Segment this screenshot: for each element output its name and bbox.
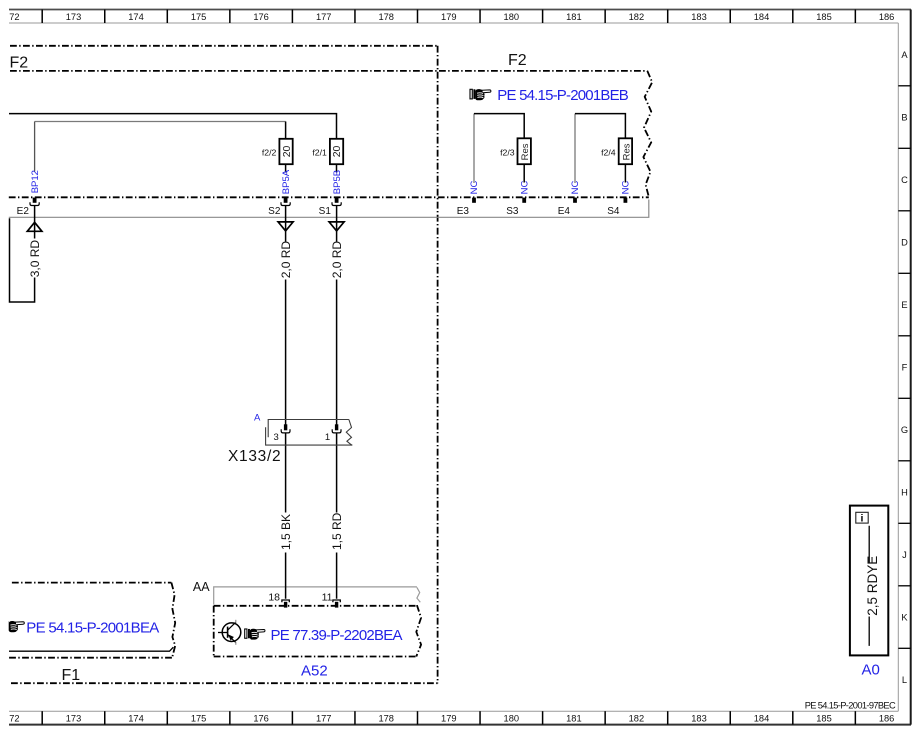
svg-text:11: 11 [322,592,333,604]
component box F2 right: zigzag continuation edge [643,71,652,197]
component box A52: bottom border [214,656,417,658]
terminal S2 [281,198,290,206]
svg-text:Res: Res [520,143,531,160]
svg-text:2,0 RD: 2,0 RD [330,241,344,279]
right ruler column [898,10,910,725]
svg-text:H: H [901,487,908,497]
connector pin 3 [281,424,290,433]
component box F1: zigzag continuation edge [171,583,175,657]
svg-text:X133/2: X133/2 [228,448,281,465]
component box F1: top border [12,582,172,584]
svg-text:2,0 RD: 2,0 RD [279,241,293,279]
svg-text:L: L [902,675,907,685]
svg-text:BP5B: BP5B [332,170,343,194]
svg-text:PE 54.15-P-2001-97BEC: PE 54.15-P-2001-97BEC [805,700,896,710]
svg-text:F1: F1 [62,667,81,684]
svg-text:179: 179 [441,12,457,22]
svg-text:S4: S4 [607,206,620,217]
svg-text:181: 181 [566,12,582,22]
svg-text:173: 173 [66,12,82,22]
svg-text:BP12: BP12 [30,170,41,193]
svg-text:178: 178 [378,12,394,22]
right ruler ticks [898,86,910,649]
hand icon F2 right [470,89,491,100]
wire: pin3 to A52 pin18 (1,5 BK) [285,433,287,599]
svg-text:173: 173 [66,713,82,723]
svg-text:3: 3 [274,432,279,443]
hand icon A52 [245,629,265,640]
svg-text:E3: E3 [457,206,470,217]
wire: right box circuit 2 [574,114,576,183]
svg-text:F: F [902,362,908,372]
arrow S1 (down) [329,222,344,231]
svg-text:B: B [901,112,907,122]
terminal S4 [624,198,628,203]
component box F2: bottom band border [9,196,649,198]
component box F1: bottom border [9,657,173,659]
wire: main feed horizontal to f2/1 [9,114,337,145]
svg-text:174: 174 [128,713,144,723]
transistor symbol [218,620,241,645]
wire: pin1 to A52 pin11 (1,5 RD) [336,433,338,599]
svg-text:f2/1: f2/1 [312,147,327,157]
top ruler ticks [42,10,855,24]
fuse f2/4 Res [619,138,633,164]
svg-text:A: A [254,413,261,424]
svg-text:178: 178 [378,713,394,723]
wire: BP12 drop [34,122,36,172]
svg-text:f2/3: f2/3 [500,147,515,157]
terminal S1 [332,198,341,206]
svg-text:S1: S1 [319,206,332,217]
wire: f2/1 to terminal S1 [336,159,338,173]
svg-text:186: 186 [879,12,895,22]
svg-text:1: 1 [325,432,330,443]
F1 internal solid line [9,647,173,651]
svg-text:176: 176 [253,12,269,22]
svg-text:A0: A0 [862,662,880,679]
svg-text:S3: S3 [506,206,519,217]
svg-text:f2/2: f2/2 [262,147,277,157]
pin 18 terminal [282,600,289,608]
svg-text:182: 182 [629,12,645,22]
wire: S1 2,0 RD run [336,206,338,425]
svg-text:D: D [901,237,908,247]
svg-text:72: 72 [9,12,19,22]
component box F2 left: right border [437,46,439,683]
svg-text:182: 182 [629,713,645,723]
svg-text:180: 180 [504,713,520,723]
component box F2 left: bottom border [11,682,438,684]
svg-text:NC: NC [469,181,480,195]
svg-text:PE 54.15-P-2001BEA: PE 54.15-P-2001BEA [26,620,159,637]
arrow S2 (down) [278,222,293,231]
svg-text:174: 174 [128,12,144,22]
svg-text:175: 175 [191,12,207,22]
terminal E2 [30,198,39,206]
rail under F2 terminals [9,200,649,218]
svg-text:183: 183 [691,713,707,723]
wire: drop into fuse f2/2 [285,122,287,146]
svg-text:BP5A: BP5A [281,169,292,194]
terminal E4 [573,198,577,203]
svg-text:176: 176 [253,713,269,723]
svg-text:E: E [901,300,907,310]
fuse f2/2 20A [279,139,292,164]
svg-text:2,5 RDYE: 2,5 RDYE [865,556,880,616]
component box F2 left: top border [10,45,438,47]
svg-text:18: 18 [268,592,280,604]
svg-text:72: 72 [9,713,19,723]
wire: E2 3,0 RD run [10,206,35,302]
bottom ruler band [9,711,911,724]
component A0 box [850,506,888,656]
wire: f2/2 to terminal S2 [285,159,287,173]
component box A52: zigzag continuation edge [416,605,421,656]
svg-text:175: 175 [191,713,207,723]
wire: gray branch horizontal to f2/2 [35,121,286,123]
svg-text:f2/4: f2/4 [601,147,616,157]
svg-text:Res: Res [621,143,632,160]
terminal S3 [522,198,526,203]
component box A52: left border [213,606,215,657]
info icon [856,512,868,524]
svg-text:1,5 RD: 1,5 RD [330,512,344,550]
wire: A0 2,5 RDYE [868,526,870,646]
svg-text:PE 54.15-P-2001BEB: PE 54.15-P-2001BEB [497,87,629,104]
svg-text:G: G [901,425,908,435]
wire: right box circuit 1 [473,114,475,183]
svg-text:20: 20 [331,145,343,157]
svg-text:180: 180 [504,12,520,22]
svg-text:3,0 RD: 3,0 RD [28,240,42,278]
svg-text:186: 186 [879,713,895,723]
component box F2: inner band line [10,70,647,72]
svg-text:C: C [901,175,908,185]
connector X133/2 box [266,420,353,446]
svg-text:177: 177 [316,12,332,22]
fuse f2/3 Res [518,138,532,164]
top ruler numbers [9,12,894,22]
bottom ruler numbers [9,713,894,723]
terminal E3 [472,198,476,203]
svg-text:184: 184 [754,12,770,22]
svg-text:J: J [902,550,907,560]
component box A52: top border [214,605,417,607]
right ruler letters [901,50,909,685]
svg-text:AA: AA [193,580,210,594]
rail AA squiggle end [417,587,420,602]
svg-text:185: 185 [816,12,832,22]
svg-text:NC: NC [570,181,581,195]
top ruler band [9,10,911,24]
svg-text:181: 181 [566,713,582,723]
svg-text:A52: A52 [301,663,328,680]
svg-text:NC: NC [621,181,632,195]
svg-text:E4: E4 [558,206,571,217]
svg-text:S2: S2 [268,206,281,217]
svg-text:20: 20 [281,145,293,157]
svg-text:183: 183 [691,12,707,22]
svg-text:NC: NC [519,181,530,195]
svg-text:185: 185 [816,713,832,723]
svg-text:K: K [901,612,908,622]
svg-text:179: 179 [441,713,457,723]
connector pin 1 [332,424,341,433]
hand icon F1 (clipped at page edge) [3,621,24,632]
svg-text:PE 77.39-P-2202BEA: PE 77.39-P-2202BEA [271,627,403,644]
svg-text:F2: F2 [10,54,29,71]
svg-text:1,5 BK: 1,5 BK [279,514,293,550]
svg-text:i: i [861,513,864,525]
arrow E2 (up) [27,222,42,231]
svg-text:A: A [901,50,908,60]
svg-text:177: 177 [316,713,332,723]
svg-text:E2: E2 [17,206,30,217]
rail AA above A52 [214,587,417,605]
fuse f2/1 20A [330,139,343,164]
pin 11 terminal [333,600,340,608]
wire: S2 2,0 RD run [285,206,287,425]
bottom ruler ticks [42,711,855,724]
svg-text:184: 184 [754,713,770,723]
svg-text:F2: F2 [508,52,527,69]
